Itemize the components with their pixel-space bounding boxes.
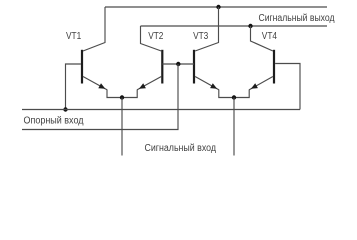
svg-text:VT4: VT4: [262, 31, 278, 42]
wire: emitter bracket of VT3/VT4: [219, 90, 249, 98]
svg-text:Сигнальный вход: Сигнальный вход: [145, 143, 217, 154]
node: VT4 collector junction on output rail 2: [248, 24, 252, 28]
transistor VT3: [194, 7, 219, 90]
wire: output rail 1 (collectors of VT1 and VT3): [105, 6, 327, 8]
node: common emitters of VT3/VT4: [232, 95, 236, 99]
wire: reference input rail (Опорный вход, upper line): [22, 109, 300, 111]
wire: VT2-VT3 common base tie: [162, 63, 194, 65]
transistor VT2: [137, 26, 162, 90]
node: VT3 collector junction on output rail 1: [216, 5, 220, 9]
svg-text:VT1: VT1: [66, 31, 82, 42]
node: common emitters of VT1/VT2: [120, 95, 124, 99]
wire: VT4 base lead loop to reference rail: [275, 64, 300, 110]
transistor VT1: [82, 7, 107, 90]
transistor VT4: [249, 26, 274, 90]
svg-text:VT3: VT3: [193, 31, 209, 42]
svg-text:Сигнальный выход: Сигнальный выход: [259, 13, 335, 24]
node: VT1 base junction on reference rail: [63, 107, 67, 111]
wire: right signal input lead: [233, 98, 235, 156]
wire: emitter bracket of VT1/VT2: [107, 90, 137, 98]
wire: output rail 2 (collectors of VT2 and VT4): [141, 25, 328, 27]
node: VT2/VT3 common base junction: [176, 62, 180, 66]
wire: left signal input lead: [121, 98, 123, 156]
wire: VT1 base lead to reference rail: [66, 64, 81, 110]
wire: VT2/VT3 bases down and left to lower reference input line: [22, 64, 178, 130]
svg-text:Опорный вход: Опорный вход: [24, 115, 84, 126]
svg-text:VT2: VT2: [148, 31, 164, 42]
